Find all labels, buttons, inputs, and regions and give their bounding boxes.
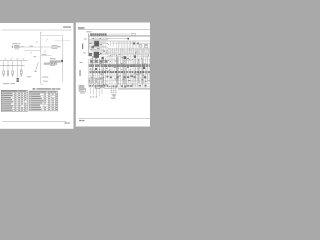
- splice slash 3: [30, 52, 32, 54]
- splice blob mid 2: [134, 55, 136, 58]
- battery B1: [15, 45, 20, 47]
- hanging box 2: [145, 44, 148, 47]
- label box row2b: [48, 63, 51, 65]
- diagonal wire: [36, 62, 39, 70]
- top connector row: [90, 34, 106, 36]
- splice blob mid 3: [102, 57, 104, 59]
- splice slash 1: [36, 41, 38, 43]
- left col speck 1: [86, 30, 91, 33]
- long wire right: [118, 88, 150, 90]
- connector box C1: [52, 46, 57, 49]
- hatch block left: [89, 78, 96, 83]
- left block mesh: [89, 37, 108, 56]
- splice blob mid 4: [143, 67, 145, 69]
- connector stack B: [96, 85, 105, 88]
- label box row2c: [51, 63, 54, 65]
- bottom label text b: [10, 82, 15, 85]
- trunk label text 1: [42, 76, 48, 79]
- drop wire 3: [12, 61, 14, 71]
- label box row1c: [57, 61, 60, 63]
- ground 5: [20, 75, 22, 77]
- trunk top slash: [40, 32, 42, 34]
- left col speck 2: [84, 38, 87, 41]
- battery label text: [15, 47, 20, 50]
- bus wire upper: [0, 60, 28, 62]
- junction dot 1: [3, 65, 4, 66]
- left footer rule: [2, 120, 66, 122]
- harness wire 3: [112, 42, 150, 44]
- right page number: [79, 120, 84, 121]
- wire comb mid: [117, 41, 136, 52]
- mid label speck: [30, 45, 33, 48]
- label right of C1: [58, 46, 61, 47]
- vertical fig label 2: [80, 70, 81, 76]
- wire lower to C1: [41, 55, 51, 57]
- fuse box 2: [7, 71, 9, 74]
- junction dot 2: [8, 65, 9, 66]
- wire to bundle: [104, 88, 111, 90]
- bus slash b: [11, 58, 13, 60]
- ground 2: [7, 75, 9, 77]
- legend table right: [29, 91, 58, 111]
- cluster text below: [50, 65, 55, 66]
- bus slash c: [17, 58, 19, 60]
- faint wire right top: [55, 40, 71, 42]
- harness wire 1: [106, 38, 127, 40]
- connector strip row 1: [89, 65, 151, 67]
- wire vertical trunk: [40, 32, 42, 84]
- wire vertical right: [62, 36, 64, 83]
- label box row1b: [54, 61, 57, 63]
- dense mesh upper right: [106, 48, 150, 58]
- figure caption number: [33, 88, 36, 89]
- bundle ground: [112, 94, 117, 96]
- junction blob dark 2: [92, 46, 94, 48]
- label above lower wire: [42, 53, 47, 56]
- hanging box 1: [139, 44, 141, 47]
- ground 1: [3, 75, 5, 77]
- wire branch: [25, 50, 41, 52]
- left header text: [63, 26, 71, 27]
- trunk stub: [41, 83, 43, 85]
- drop wire 1: [3, 61, 5, 71]
- connector stack A: [79, 85, 86, 91]
- top rail lower: [89, 36, 150, 38]
- left col speck 3: [83, 52, 85, 55]
- dark block mid left 2: [89, 53, 92, 56]
- harness wire 2: [89, 40, 150, 42]
- bus slash a: [5, 58, 7, 60]
- left page number: [65, 122, 70, 123]
- splice blob mid 1: [124, 56, 127, 59]
- dense harness mesh: [89, 55, 150, 88]
- splice blob mid 5: [95, 68, 97, 70]
- label box row2d: [55, 63, 57, 65]
- wire top horizontal: [41, 35, 63, 37]
- bundle label: [111, 98, 116, 99]
- label text row cluster: [50, 58, 56, 59]
- splice blob 2: [133, 42, 135, 44]
- branch wire top: [108, 33, 132, 35]
- bus slash d: [23, 58, 25, 60]
- fuse box 3: [12, 71, 14, 74]
- legend table left: [1, 90, 27, 111]
- dark block mid left: [94, 52, 99, 58]
- right header text: [78, 27, 84, 28]
- relay block dark: [17, 78, 19, 82]
- splice slash 4: [44, 51, 46, 53]
- drop wire 4: [17, 61, 19, 78]
- label box row2a: [44, 63, 47, 65]
- left page: [0, 23, 74, 129]
- junction blob dark: [94, 41, 99, 47]
- wire comb right: [136, 43, 149, 54]
- drop wire 2: [7, 61, 9, 71]
- fuse box 5: [20, 70, 22, 74]
- terminal block dark: [61, 60, 63, 62]
- wire node to C1: [41, 46, 52, 48]
- component block lower: [96, 78, 103, 82]
- bottom component row: [89, 85, 146, 88]
- battery right label: [20, 46, 24, 47]
- label text above battery: [12, 43, 20, 44]
- right page: [76, 23, 152, 127]
- vertical fig label: [82, 44, 83, 49]
- label box row1a: [50, 61, 53, 63]
- bottom label text a: [3, 82, 9, 85]
- figure caption text: [37, 88, 61, 89]
- junction dot 3: [12, 65, 13, 66]
- gutter shadow: [73, 23, 77, 127]
- branch end box: [132, 33, 135, 36]
- trunk label text 2: [43, 80, 48, 83]
- long wire right 2: [118, 89, 150, 91]
- diagram left boundary: [88, 33, 90, 56]
- connector strip row 3: [107, 75, 147, 78]
- connector strip row 2: [90, 71, 150, 73]
- connector pin bundle: [111, 86, 116, 94]
- splice dots: [89, 43, 149, 87]
- wire battery to node: [19, 46, 41, 48]
- splice blob 1: [127, 38, 129, 40]
- top rail upper: [89, 35, 150, 37]
- splice slash 2: [46, 39, 48, 41]
- stub verticals mid: [111, 41, 114, 47]
- left col speck 4: [80, 61, 83, 64]
- drop wire 5: [20, 61, 22, 70]
- connector pins A: [80, 92, 85, 93]
- mid label speck 2: [34, 55, 37, 58]
- right header rule: [78, 28, 150, 30]
- bus wire lower: [0, 65, 25, 67]
- battery terminal dot: [11, 46, 14, 48]
- ground 3: [12, 75, 14, 77]
- left header rule: [2, 29, 72, 31]
- component row upper: [90, 60, 107, 63]
- right footer rule: [79, 118, 151, 120]
- label mid text: [27, 75, 32, 78]
- left block text specks: [89, 38, 105, 55]
- harness drops below band: [90, 88, 102, 97]
- splice blob 3: [137, 43, 139, 45]
- diagonal arrow label: [35, 71, 37, 72]
- fuse box 1: [3, 71, 5, 74]
